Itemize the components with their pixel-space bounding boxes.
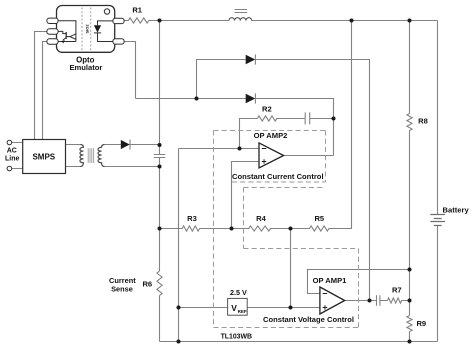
wire vref right to U1	[247, 307, 320, 309]
svg-text:Constant Current Control: Constant Current Control	[232, 172, 324, 181]
node R3-R4	[230, 227, 234, 231]
svg-text:OP AMP2: OP AMP2	[254, 131, 288, 140]
wire diode D3 row	[136, 99, 334, 156]
node rail-R5	[350, 19, 354, 23]
transformer T1 primary coil	[80, 145, 84, 167]
op-amp U2 OP AMP2	[259, 143, 284, 168]
dashed box constant voltage top edge	[244, 248, 359, 250]
svg-text:R1: R1	[132, 6, 142, 15]
wire AC line stubs	[12, 143, 23, 169]
SMPS block	[23, 140, 66, 174]
svg-text:OP AMP1: OP AMP1	[313, 276, 348, 285]
node R3 left	[158, 227, 162, 231]
resistor R1	[124, 18, 160, 23]
dashed box inner top edge	[244, 187, 326, 189]
wire current sense branch x178	[178, 149, 180, 342]
svg-text:R4: R4	[256, 214, 266, 223]
svg-text:V: V	[231, 303, 237, 313]
opto pin 2	[47, 29, 58, 34]
wire op-amp U1 output	[345, 300, 377, 302]
node rail sense	[177, 340, 181, 344]
dashed box constant voltage right edge	[358, 249, 360, 328]
opto isolation barrier dashed	[82, 8, 91, 51]
svg-text:TL103WB: TL103WB	[221, 333, 252, 340]
svg-text:SMPS: SMPS	[32, 152, 55, 161]
svg-text:Emulator: Emulator	[69, 63, 102, 72]
node feedback right	[408, 268, 412, 272]
svg-text:R6: R6	[142, 280, 152, 289]
svg-text:R5: R5	[314, 214, 324, 223]
wire diode D2 row	[197, 60, 370, 301]
wire top rail left	[160, 20, 229, 22]
svg-text:SiO2: SiO2	[84, 24, 89, 34]
svg-text:AC: AC	[7, 148, 17, 155]
wire C2 to node	[310, 118, 334, 120]
wire top rail right	[252, 20, 438, 22]
dashed box constant current right edge	[325, 131, 327, 183]
wire secondary bottom to cap	[105, 166, 160, 168]
svg-text:R3: R3	[187, 214, 197, 223]
capacitor C3	[377, 295, 380, 306]
resistor R3	[160, 226, 232, 231]
wire op-amp U2 noninverting input	[232, 162, 260, 229]
dashed box TL103WB top edge	[214, 130, 326, 132]
node vref left	[177, 306, 181, 310]
wire opto pin3 to SMPS	[43, 42, 48, 140]
wire diode D1 to cap	[130, 144, 159, 146]
wire vref left	[179, 307, 228, 309]
svg-text:R2: R2	[262, 105, 272, 114]
wire bottom rail	[160, 341, 438, 343]
node U1 output	[368, 299, 372, 303]
opto emitter arrow	[62, 40, 65, 43]
op-amp U1 OP AMP1	[320, 287, 345, 314]
dashed box inner left edge	[243, 188, 245, 249]
opto pin 1	[47, 18, 58, 23]
transformer T1 core	[88, 148, 93, 163]
node cap bottom	[158, 165, 162, 169]
vref box	[228, 298, 248, 315]
wire op-amp U1 feedback	[308, 270, 410, 294]
wire secondary top to diode D1	[105, 144, 121, 146]
dashed box constant current bottom edge	[232, 181, 326, 183]
svg-text:2.5 V: 2.5 V	[230, 288, 247, 297]
svg-text:REF: REF	[238, 309, 247, 314]
resistor R2	[257, 116, 305, 121]
node R4-R5	[289, 227, 293, 231]
transformer T1 secondary coil	[98, 145, 105, 167]
resistor R5	[291, 226, 330, 231]
node rail-R8	[408, 19, 412, 23]
opto pin 3	[47, 39, 58, 44]
wire op-amp U2 inverting input	[179, 148, 260, 150]
svg-text:R8: R8	[418, 117, 428, 126]
AC line terminal bottom	[7, 166, 12, 171]
dashed box TL103WB bottom edge	[214, 327, 359, 329]
capacitor C1 output	[154, 155, 166, 158]
AC line terminal top	[7, 140, 12, 145]
node vref right	[289, 306, 293, 310]
opto pin 4	[113, 39, 124, 44]
svg-text:R9: R9	[416, 319, 426, 328]
wire U2 feedback up	[240, 119, 258, 149]
capacitor C2 feedback	[305, 112, 310, 124]
opto pin1 indicator circle	[104, 9, 109, 14]
wire op-amp U2 output	[284, 155, 334, 157]
node feedback R2C2	[332, 117, 336, 121]
resistor R9	[407, 316, 412, 332]
diode D2	[246, 54, 256, 64]
svg-text:R7: R7	[392, 286, 402, 295]
resistor R8	[407, 114, 412, 131]
wire R8 R9 branch x410	[409, 21, 411, 342]
diode D1 rectifier	[121, 140, 130, 150]
diode D3	[246, 93, 256, 103]
resistor R6	[157, 271, 162, 295]
wire opto pin2 to SMPS	[35, 32, 48, 140]
node R7 right	[408, 299, 412, 303]
opto LED	[94, 21, 113, 42]
node R1-rail	[158, 19, 162, 23]
node cap top	[158, 143, 162, 147]
opto pin 6	[113, 18, 124, 23]
wire R5 to top rail x351	[329, 21, 352, 229]
resistor R4	[232, 226, 291, 231]
wire R4 R5 junction down	[290, 229, 292, 308]
node U2 inverting	[238, 147, 242, 151]
wire output node vertical x159	[159, 21, 161, 342]
svg-text:Constant Voltage Control: Constant Voltage Control	[263, 315, 354, 324]
opto phototransistor	[58, 21, 76, 42]
svg-text:Sense: Sense	[111, 284, 133, 293]
inductor L1	[229, 10, 252, 21]
battery plates	[430, 215, 445, 226]
node rail R9	[408, 340, 412, 344]
wire opto pin R2 down	[124, 42, 136, 99]
resistor R7	[380, 298, 410, 303]
opto emulator U3 body	[47, 6, 124, 53]
transformer T1 primary leads	[66, 145, 81, 167]
node diode branch	[195, 97, 199, 101]
svg-text:Line: Line	[5, 155, 19, 162]
svg-text:Battery: Battery	[443, 206, 470, 215]
dashed box TL103WB left edge	[214, 131, 359, 328]
wire battery vertical	[437, 21, 439, 342]
